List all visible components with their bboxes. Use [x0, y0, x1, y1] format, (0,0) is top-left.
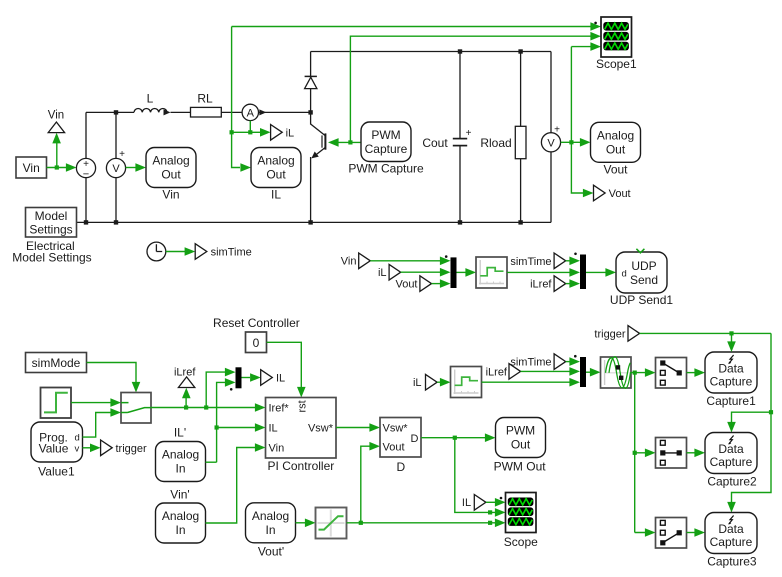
svg-text:Out: Out	[511, 438, 531, 452]
svg-text:IL: IL	[276, 373, 285, 385]
wire: iL tag to mux M1	[401, 271, 440, 273]
svg-text:d: d	[75, 433, 80, 444]
svg-text:iL: iL	[413, 377, 422, 389]
wire: step to switch input 1	[71, 402, 111, 404]
goto tag iL	[271, 125, 283, 141]
voltmeter Vm2	[541, 133, 560, 152]
mux M1	[451, 257, 457, 288]
wire: PWM Capture gate drive	[338, 141, 361, 143]
wire: Prog Value v to trigger goto	[83, 447, 91, 449]
wire: mux M3 to IL goto	[242, 377, 251, 379]
svg-text:UDP: UDP	[631, 259, 656, 273]
svg-text:RL: RL	[197, 92, 213, 106]
svg-text:PWM Out: PWM Out	[494, 459, 547, 473]
svg-text:Model: Model	[35, 209, 68, 223]
svg-text:+: +	[466, 128, 472, 139]
svg-text:+: +	[119, 149, 125, 160]
block D (duty cycle) U11	[380, 418, 421, 458]
wire: iLref tag to mux M4 input2	[521, 370, 570, 372]
mux M2	[580, 255, 586, 290]
wire: iLref tag to mux M2	[566, 283, 570, 285]
svg-text:+: +	[554, 124, 560, 135]
svg-text:trigger: trigger	[594, 328, 626, 340]
scope Scope	[506, 493, 537, 533]
svg-text:Vout': Vout'	[258, 544, 284, 558]
mux M3	[236, 367, 242, 388]
wire: bottom ground rail	[77, 221, 552, 223]
wire: Cout legs	[459, 52, 461, 223]
clock block	[147, 242, 166, 261]
switch block	[121, 393, 151, 424]
wire: Vm2 output to Analog Out Vout, Scope1, Vout tag	[561, 47, 591, 193]
goto tag simTime	[195, 244, 207, 260]
wire: 0 to PI rst	[267, 342, 302, 387]
svg-text:Capture: Capture	[365, 142, 408, 156]
wire: simTime tag to mux M4 input1	[566, 361, 570, 363]
resistor RL	[191, 107, 222, 117]
svg-text:Cout: Cout	[422, 136, 448, 150]
wire: mux M4 to assert block	[586, 371, 590, 373]
svg-text:Vin: Vin	[23, 161, 40, 175]
block Prog. Value (Value1)	[31, 422, 83, 462]
wire: top rail Vin node	[86, 111, 311, 113]
wire: simMode to switch select	[87, 363, 137, 383]
svg-text:simTime: simTime	[510, 357, 551, 369]
svg-text:v: v	[75, 443, 80, 454]
wire: voltmeter Vm1 legs	[115, 112, 117, 222]
wire: Vout tag to mux M1	[432, 283, 441, 285]
svg-text:Value: Value	[39, 442, 69, 456]
goto tag Vin	[48, 122, 64, 133]
svg-text:Vin: Vin	[48, 110, 64, 122]
wire: vertical source Vin leg	[85, 112, 87, 222]
svg-text:Capture1: Capture1	[706, 394, 756, 408]
wire: S2 to Capture2	[687, 452, 695, 454]
goto tag IL	[261, 370, 273, 386]
svg-text:Iref*: Iref*	[269, 403, 290, 415]
selector block S3	[656, 518, 687, 549]
svg-text:Scope: Scope	[504, 535, 538, 549]
svg-text:Vsw*: Vsw*	[308, 423, 334, 435]
svg-text:Reset Controller: Reset Controller	[213, 316, 300, 330]
wire: iL long line to Scope1 and Analog Out IL	[232, 27, 591, 168]
transistor Q1 (IGBT)	[311, 124, 326, 136]
model settings block	[26, 208, 77, 238]
block Analog Out (Vout) U5	[591, 122, 641, 162]
svg-text:UDP Send1: UDP Send1	[610, 293, 673, 307]
assert/sine block U13	[601, 357, 632, 388]
probe block P1	[476, 257, 507, 288]
node: junction dots on rails	[84, 49, 523, 224]
svg-text:PWM: PWM	[371, 128, 400, 142]
wire: Vin block to source V1	[47, 167, 67, 169]
wire: S1 to Capture1	[687, 372, 695, 374]
voltmeter Vm1	[106, 158, 125, 177]
svg-text:V: V	[547, 138, 555, 150]
block Analog In (Vout') U10	[246, 503, 296, 543]
wire: saturation out to D Vout and Scope input3	[347, 446, 496, 523]
svg-text:PWM: PWM	[506, 424, 535, 438]
scope Scope1	[601, 17, 632, 57]
block PI Controller U7	[266, 398, 337, 459]
svg-text:Rload: Rload	[480, 136, 511, 150]
svg-text:Vout: Vout	[395, 279, 417, 291]
wire: PI Vsw* to D	[336, 427, 370, 429]
svg-text:D: D	[411, 433, 419, 445]
svg-text:Capture2: Capture2	[707, 474, 757, 488]
svg-text:Vin': Vin'	[170, 488, 189, 502]
svg-text:Settings: Settings	[29, 222, 72, 236]
block Analog Out (IL) U3	[251, 148, 301, 188]
wire: probe P1 to mux M2	[507, 271, 570, 273]
block PWM Out U12	[496, 418, 546, 458]
block Analog Out (Vin) U2	[146, 148, 196, 188]
wire: branch up to mux M3 input 1	[206, 372, 225, 407]
svg-text:PI Controller: PI Controller	[268, 459, 335, 473]
wire: Vin tag to mux M1	[370, 260, 440, 262]
wire: switch-node vertical (diode/IGBT branch)	[310, 52, 312, 223]
wire: iL tag to probe P2	[437, 381, 440, 383]
svg-text:IL': IL'	[174, 426, 186, 440]
svg-text:Vout: Vout	[603, 162, 628, 176]
svg-text:IL: IL	[271, 188, 281, 202]
wire: Rload legs	[520, 52, 522, 223]
wire: probe P2 to mux M4 input3	[482, 381, 570, 383]
svg-text:IL: IL	[269, 423, 278, 435]
svg-text:Vin: Vin	[341, 256, 357, 268]
wire: mux M1 to probe P1	[457, 271, 466, 273]
wire: Analog In Vout' to saturation	[296, 522, 306, 524]
capacitor Cout	[453, 138, 467, 140]
svg-text:IL: IL	[462, 497, 471, 509]
source block Vin	[16, 157, 47, 178]
svg-text:V: V	[112, 163, 120, 175]
svg-text:Capture3: Capture3	[707, 554, 757, 568]
step source block	[41, 388, 72, 419]
wire: assert out to selectors S1,S2,S3	[631, 373, 645, 533]
selector block S1	[656, 358, 687, 389]
wire: gate signal up to Scope1	[350, 36, 590, 142]
svg-text:rst: rst	[297, 400, 309, 412]
svg-text:Vin: Vin	[162, 188, 179, 202]
svg-text:trigger: trigger	[116, 443, 148, 455]
svg-text:iLref: iLref	[486, 366, 508, 378]
wire: Prog Value d to switch input 2	[83, 413, 111, 438]
inductor L	[134, 108, 167, 112]
svg-text:0: 0	[253, 336, 260, 350]
svg-text:iLref: iLref	[174, 366, 196, 378]
wire: IL tag to Scope input1	[486, 501, 495, 503]
wire: switch output (iLref net)	[151, 407, 255, 409]
wire: mux M2 to UDP Send	[586, 271, 606, 273]
wire: clock to simTime goto	[166, 251, 185, 253]
wire: branch up to iLref goto	[185, 393, 187, 408]
controlled voltage source V1	[76, 158, 95, 177]
source block simMode	[26, 353, 87, 373]
svg-text:−: −	[83, 169, 89, 181]
block Data Capture (Capture2) U15	[705, 433, 757, 474]
block Data Capture (Capture1) U14	[705, 352, 757, 393]
goto tag trigger	[101, 440, 113, 456]
wire: Analog In IL' output	[206, 461, 217, 463]
svg-text:Model Settings: Model Settings	[12, 250, 91, 264]
svg-text:Send: Send	[630, 273, 658, 287]
svg-text:simTime: simTime	[211, 247, 252, 259]
svg-text:Vin: Vin	[269, 443, 285, 455]
probe block P2	[451, 367, 482, 398]
wire: ammeter signal to iL goto	[250, 131, 260, 133]
wire: Vm1 to Analog Out Vin	[126, 167, 136, 169]
svg-text:D: D	[396, 460, 405, 474]
wire: output top rail	[311, 52, 551, 223]
svg-text:Value1: Value1	[38, 464, 75, 478]
svg-text:Scope1: Scope1	[596, 57, 637, 71]
svg-text:d: d	[622, 268, 627, 279]
wire: branch up to Vin goto tag	[56, 138, 58, 168]
svg-text:iLref: iLref	[530, 279, 552, 291]
block UDP Send U6	[616, 252, 667, 293]
svg-text:Vout: Vout	[609, 188, 631, 200]
goto tag Vout	[594, 185, 606, 201]
svg-text:iL: iL	[286, 127, 295, 139]
selector block S2	[656, 438, 687, 469]
svg-text:simTime: simTime	[510, 256, 551, 268]
svg-text:simMode: simMode	[32, 356, 81, 370]
svg-text:iL: iL	[378, 267, 387, 279]
goto tag iLref	[178, 377, 194, 388]
wire: IL' net to mux M3 input 2 and PI IL input	[217, 382, 225, 462]
wire: Analog In Vin' to PI Vin input	[206, 448, 256, 524]
wire: trigger to capture trigger ports	[640, 333, 771, 502]
diode D1	[305, 77, 317, 88]
wire: D output to PWM Out and Scope input2	[421, 438, 495, 513]
resistor Rload	[515, 126, 526, 158]
block PWM Capture U4	[361, 122, 411, 162]
mux M4	[580, 357, 586, 387]
block Data Capture (Capture3) U16	[705, 513, 757, 554]
svg-text:Vsw*: Vsw*	[383, 423, 409, 435]
svg-text:L: L	[147, 92, 154, 106]
wire: simTime tag to mux M2	[566, 260, 570, 262]
svg-text:A: A	[247, 108, 255, 120]
wire: S3 to Capture3	[687, 532, 695, 534]
svg-text:Vout: Vout	[383, 442, 405, 454]
saturation block	[316, 508, 347, 539]
ammeter A1	[242, 104, 258, 120]
svg-text:PWM Capture: PWM Capture	[348, 162, 424, 176]
wire: ammeter signal down to junction	[232, 121, 251, 133]
